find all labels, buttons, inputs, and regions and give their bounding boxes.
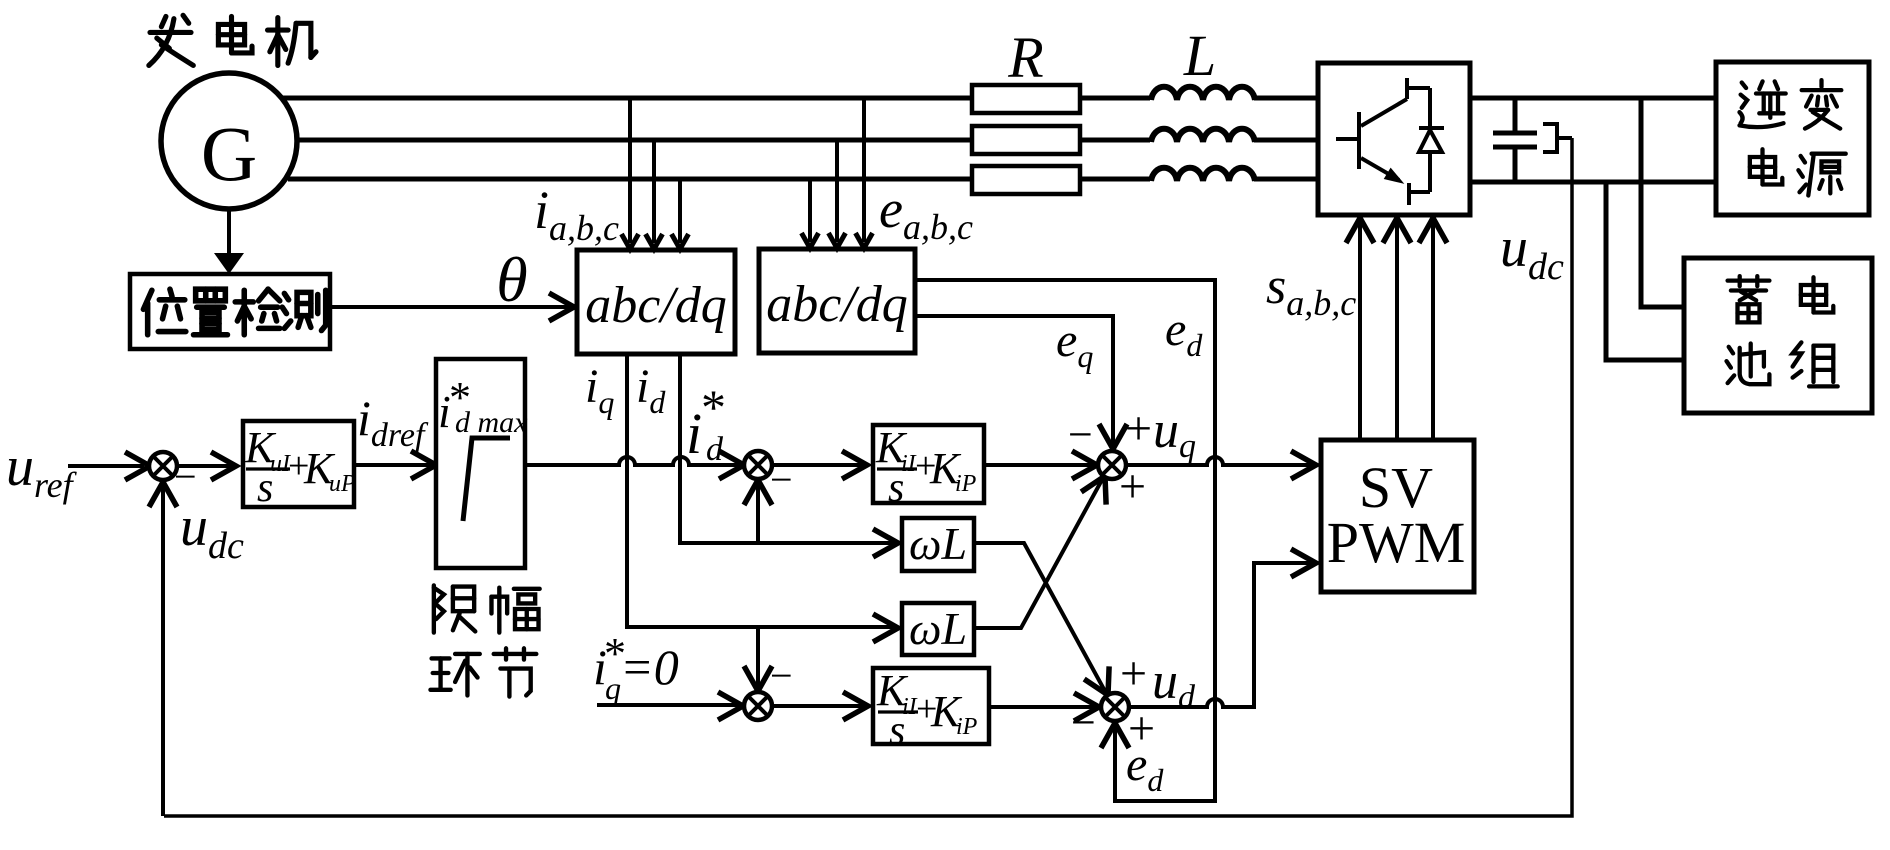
svg-text:−: − bbox=[174, 454, 197, 499]
svg-text:−: − bbox=[1068, 410, 1093, 459]
svg-text:−: − bbox=[770, 457, 793, 502]
svg-text:uP: uP bbox=[329, 471, 356, 497]
svg-text:+: + bbox=[1120, 647, 1147, 700]
svg-text:+: + bbox=[1119, 460, 1146, 513]
svg-text:s: s bbox=[888, 465, 904, 511]
svg-text:−: − bbox=[770, 653, 793, 698]
svg-text:d: d bbox=[706, 431, 724, 468]
svg-text:R: R bbox=[1007, 25, 1043, 90]
svg-text:i: i bbox=[686, 401, 702, 466]
svg-text:s: s bbox=[257, 465, 273, 511]
svg-text:s: s bbox=[889, 708, 905, 754]
svg-text:ωL: ωL bbox=[909, 518, 967, 569]
svg-text:*: * bbox=[701, 379, 726, 435]
svg-text:PWM: PWM bbox=[1327, 510, 1466, 575]
svg-text:iP: iP bbox=[955, 471, 977, 497]
svg-text:ωL: ωL bbox=[909, 603, 967, 654]
svg-text:θ: θ bbox=[496, 244, 527, 315]
svg-text:+: + bbox=[1125, 402, 1152, 455]
svg-text:G: G bbox=[201, 110, 257, 197]
svg-text:d max: d max bbox=[455, 406, 528, 439]
svg-text:iP: iP bbox=[956, 714, 978, 740]
svg-text:−: − bbox=[1071, 698, 1096, 747]
svg-text:q: q bbox=[605, 670, 621, 706]
svg-text:abc/dq: abc/dq bbox=[585, 277, 727, 334]
svg-text:=0: =0 bbox=[620, 639, 679, 695]
svg-text:abc/dq: abc/dq bbox=[766, 276, 908, 333]
svg-text:L: L bbox=[1183, 23, 1216, 88]
